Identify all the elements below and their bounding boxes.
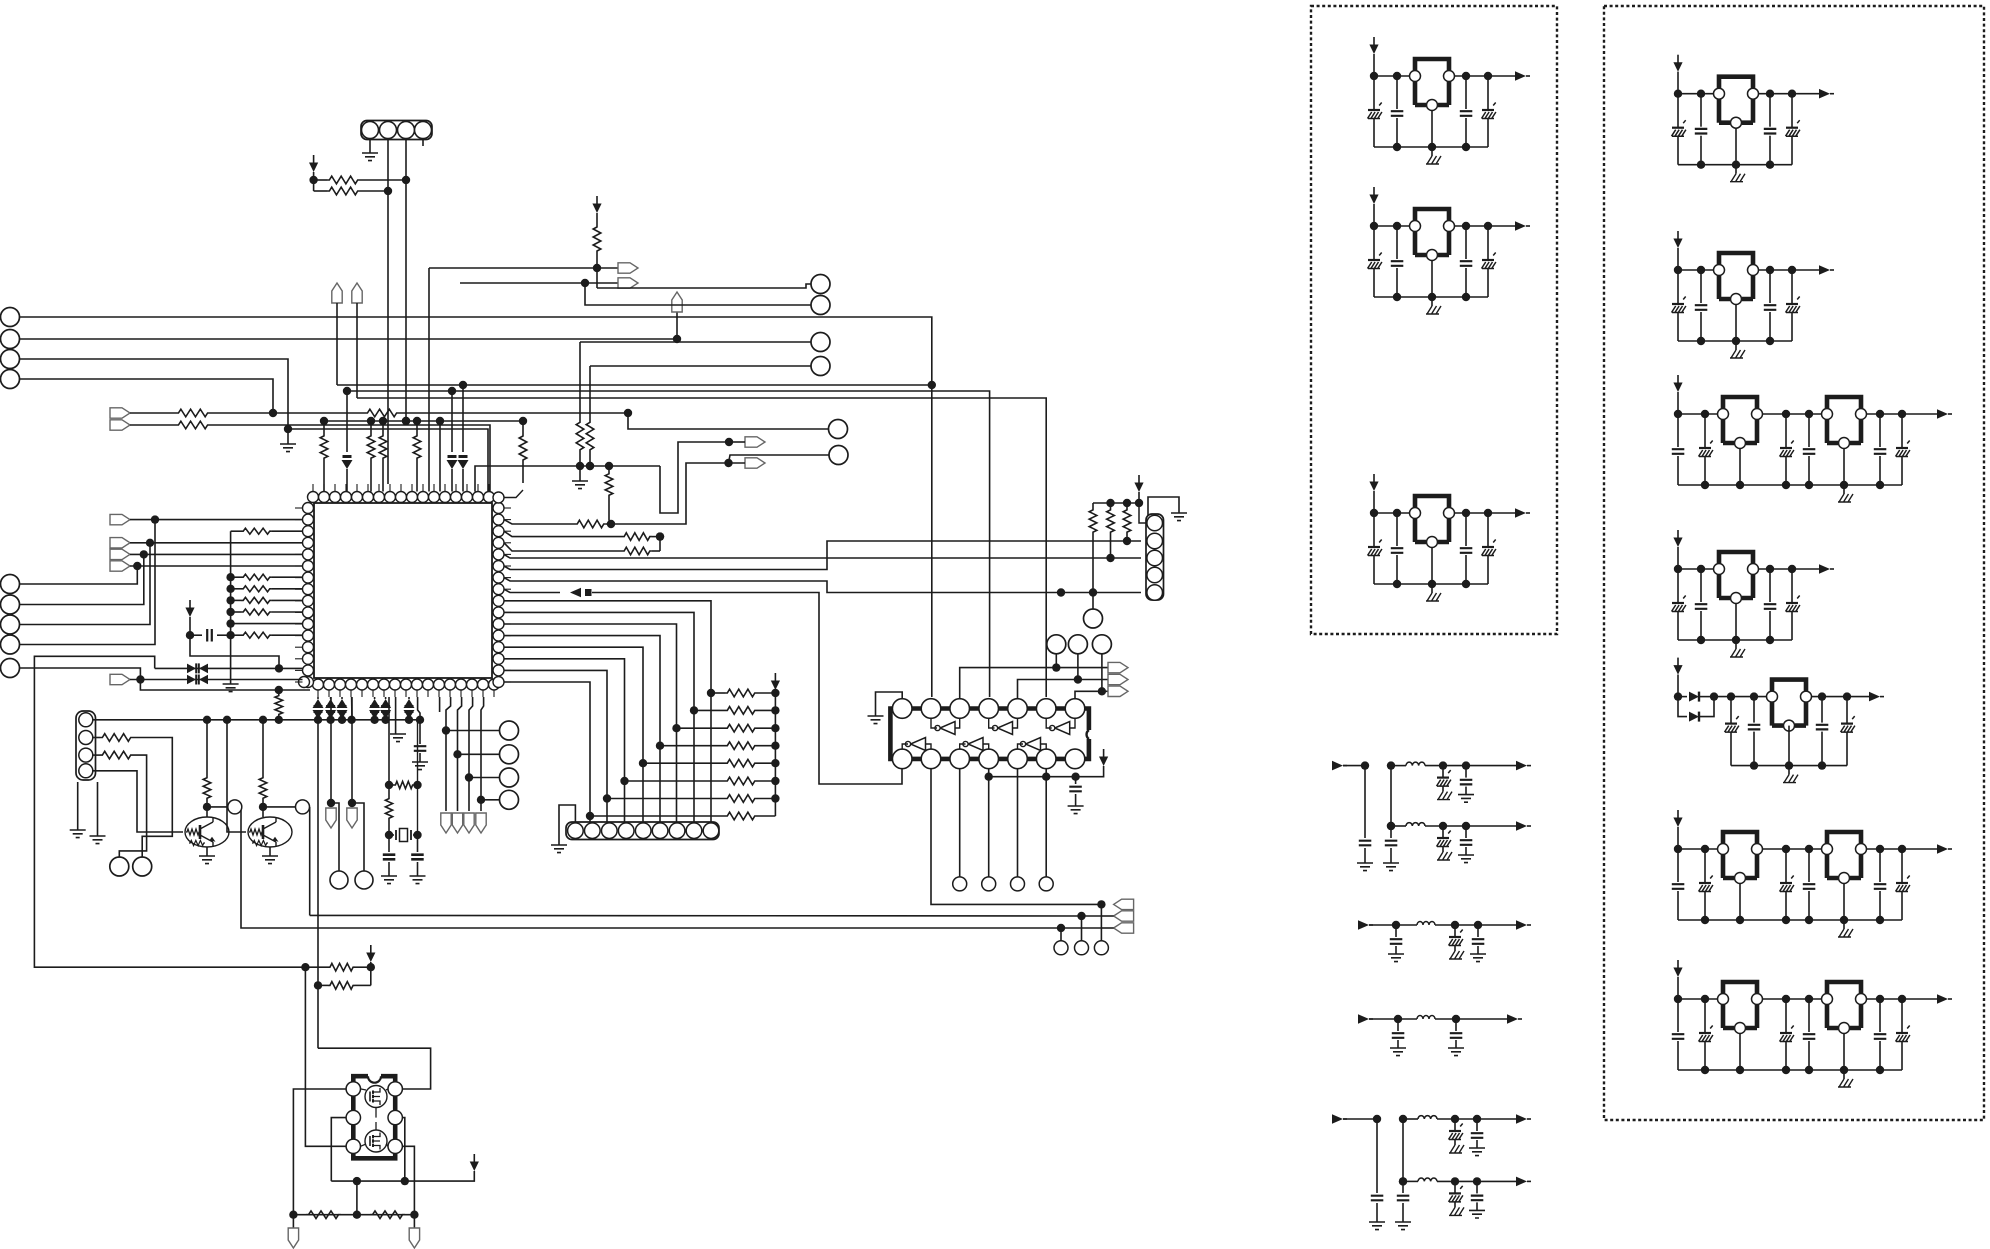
connector CN2 pins — [568, 823, 719, 839]
wire U1 b-pin10 — [418, 697, 420, 720]
wire P2-6 ground rail — [1678, 916, 1902, 924]
wire P2-7 input rail — [1674, 977, 1718, 1003]
wire U1 pin-bus y421 — [320, 417, 523, 425]
arrow P1-1 out — [1515, 71, 1530, 81]
capacitor C5 — [410, 835, 426, 884]
terminal TP23 — [452, 813, 462, 833]
terminal TP26 — [288, 1215, 298, 1248]
arrow P2-6 out — [1937, 844, 1952, 854]
resistor R35 — [275, 690, 283, 720]
ground CN1 pin1 — [362, 139, 378, 161]
connector J1 — [1, 308, 20, 327]
wire FL207a gnd pin — [1739, 1033, 1741, 1070]
connector CN1 outline — [361, 121, 432, 140]
power P2-1 VCC — [1673, 55, 1682, 72]
resistor R4 — [130, 421, 490, 491]
node F5_1377 — [1373, 1115, 1381, 1123]
wire J5 line — [697, 428, 828, 430]
arrow P2-3 out — [1937, 409, 1952, 419]
wire FL201 gnd pin — [1735, 128, 1737, 165]
resistor R33 — [231, 609, 303, 615]
wire FL101 gnd pin — [1431, 110, 1433, 147]
wire to J8 — [576, 342, 811, 470]
connector J22 — [133, 857, 152, 876]
ferrite FB1 — [570, 588, 592, 598]
wire P2-4 output — [1759, 565, 1823, 573]
capacitor CF1_1443 (feedthrough) — [1437, 761, 1453, 799]
wire F5 line — [1403, 1118, 1516, 1120]
wire J3 net — [20, 359, 489, 492]
diode D7 (clamp) — [325, 697, 336, 720]
wire J36 line — [481, 799, 500, 801]
capacitor C203a — [1672, 414, 1685, 485]
arrow P1-3 out — [1515, 508, 1530, 518]
power P2-7 VCC — [1673, 960, 1682, 977]
resistor R23 — [590, 812, 775, 820]
inductor LF3 — [1417, 922, 1435, 925]
capacitor CF2_1443 (feedthrough) — [1437, 822, 1453, 860]
node F6_1403 — [1399, 1177, 1407, 1185]
terminal TP20 — [326, 808, 336, 828]
wire gnd rail y719 — [93, 716, 424, 724]
wire R38/39 join — [370, 962, 372, 985]
resistor R11 — [593, 213, 601, 272]
capacitor CF5b — [1395, 1119, 1411, 1230]
wire U1 b-pin8 gnd — [390, 697, 406, 742]
wire U1 b-nest1 — [442, 697, 451, 811]
ground P2-6 — [1838, 920, 1853, 937]
resistor R25 — [1107, 503, 1115, 558]
wire P1-3 input rail — [1370, 491, 1410, 517]
wire U3 TL — [293, 1089, 346, 1215]
wire CN1 pin2 down — [387, 191, 389, 484]
wire FL203b gnd pin — [1843, 448, 1845, 485]
arrow P2-7 out — [1937, 994, 1952, 1004]
wire U1-pin11 line — [429, 267, 597, 269]
power VCC4 — [1134, 475, 1143, 492]
resistor R16 — [711, 689, 780, 697]
connector CN1 pins — [362, 122, 432, 139]
terminal TP27 — [409, 1215, 419, 1248]
connector J31 — [330, 871, 348, 889]
wire b-term2 branch — [352, 803, 364, 871]
ground U2 pin1 — [868, 692, 903, 724]
wire P2-4 ground rail — [1678, 636, 1792, 644]
wire P2-5 input — [1674, 675, 1687, 701]
wire FL204 gnd pin — [1735, 603, 1737, 640]
filter FL103 (EMI) — [1410, 496, 1455, 548]
capacitor C2 — [412, 720, 428, 770]
wire J33 line — [446, 730, 500, 732]
terminal TP18 — [110, 561, 303, 571]
arrow P2-2 out — [1819, 265, 1834, 275]
filter FL204 (EMI) — [1714, 552, 1759, 604]
wire P2-5 mid — [1714, 692, 1767, 700]
node F1_1391 — [1387, 761, 1395, 769]
wire U1 b-nest4 — [477, 697, 485, 811]
filter FL206b (EMI) — [1822, 832, 1867, 884]
resistor R6 — [320, 421, 328, 492]
wire U2 line928 — [241, 807, 1102, 932]
capacitor C206c (feedthrough) — [1780, 849, 1794, 920]
wire U1 b-pin4 — [351, 697, 353, 720]
capacitor CF5_1477 — [1469, 1115, 1485, 1156]
wire net524 — [611, 459, 733, 524]
capacitor CF3_1478 — [1470, 921, 1486, 962]
wire bus B — [347, 387, 990, 697]
wire J34 line — [458, 753, 501, 755]
capacitor C204a (feedthrough) — [1672, 569, 1686, 640]
ground left rail — [223, 684, 239, 692]
wire J28 route — [20, 543, 151, 625]
wire CN1 pin2 to R net — [384, 139, 392, 196]
ground Q1 — [199, 847, 215, 864]
wire U2 out3 — [959, 769, 961, 877]
resistor R8 — [379, 421, 387, 492]
wire U3 ML — [331, 1118, 346, 1182]
ic U3 pins — [346, 1082, 402, 1154]
terminal TP9 — [1056, 662, 1128, 672]
terminal TP1 — [110, 408, 130, 418]
connector J21 — [1039, 877, 1053, 891]
connector J28 — [1, 615, 20, 634]
resistor R38 — [305, 963, 375, 971]
terminal TP4 — [352, 283, 362, 398]
wire M2 leads — [361, 1122, 389, 1146]
wire Q2 line down — [309, 807, 311, 916]
wire P2-6 output — [1867, 845, 1941, 853]
inductor LF5 — [1418, 1116, 1437, 1119]
diode D10 (clamp) — [380, 697, 391, 720]
wire P1-2 input rail — [1370, 204, 1410, 230]
wire bus C — [357, 398, 1046, 697]
capacitor C103a (feedthrough) — [1368, 513, 1382, 584]
connector J33 — [500, 721, 519, 740]
diode D6 (clamp) — [313, 697, 324, 720]
wire U3 MR — [401, 1118, 409, 1186]
connector J18 — [953, 877, 967, 891]
capacitor C204d (feedthrough) — [1786, 569, 1800, 640]
wire CN3 pin1 gnd — [1148, 497, 1187, 521]
diode D205a — [1689, 692, 1718, 702]
terminal TP12 — [1114, 899, 1134, 909]
wire J1 net — [20, 317, 937, 697]
wire P2-3 ground rail — [1678, 481, 1902, 489]
capacitor C101d (feedthrough) — [1482, 76, 1496, 147]
wire FL205 gnd pin — [1788, 726, 1790, 766]
resistor R29 — [231, 528, 303, 534]
filter FL206a (EMI) — [1718, 832, 1763, 884]
resistor R41 — [370, 1211, 405, 1219]
capacitor C101c — [1460, 76, 1473, 147]
wire CN4-2 route — [93, 734, 173, 858]
power VCC2 — [592, 196, 601, 213]
capacitor C103c — [1460, 513, 1473, 584]
wire line y283 — [460, 279, 589, 287]
wire P2-1 input rail — [1674, 72, 1714, 98]
wire drive down — [305, 967, 346, 1146]
ground P2-3 — [1838, 485, 1853, 502]
capacitor CF3_1455 (feedthrough) — [1449, 921, 1465, 959]
ground P1-2 — [1426, 297, 1441, 314]
ground P2-1 — [1730, 165, 1745, 182]
capacitor C207f (feedthrough) — [1896, 999, 1910, 1070]
arrow F5 in — [1332, 1114, 1377, 1124]
resistor R7 — [367, 421, 375, 492]
connector J30 — [1, 659, 20, 678]
filter FL203b (EMI) — [1822, 397, 1867, 449]
wire left rail — [226, 531, 234, 684]
capacitor C102b — [1391, 226, 1404, 297]
crystal X1 — [389, 829, 418, 842]
node F1_1365 — [1361, 761, 1369, 769]
capacitor C205a (feedthrough) — [1725, 697, 1739, 766]
connector J11 — [1084, 609, 1103, 628]
connector J5 — [829, 420, 848, 439]
wire J2 net — [20, 305, 682, 343]
wire to J9 — [586, 366, 811, 470]
gate U2F — [1018, 738, 1047, 751]
filter FL203a (EMI) — [1718, 397, 1763, 449]
wire TP row to J5 crossover — [628, 413, 697, 429]
wire J26 route — [20, 566, 138, 584]
wire y690 line — [140, 680, 310, 695]
capacitor CF6_1477 — [1469, 1177, 1485, 1218]
power P2-3 VCC — [1673, 375, 1682, 392]
filter FL205 (EMI) — [1767, 680, 1812, 732]
power P1-1 VCC — [1369, 37, 1378, 54]
power P2-6 VCC — [1673, 810, 1682, 827]
wire U1 fan3 — [504, 624, 681, 822]
resistor R22 — [607, 794, 780, 802]
wire P2-2 output — [1759, 266, 1823, 274]
connector J4 — [1, 370, 20, 389]
resistor R37 — [385, 785, 393, 839]
wire P1-1 input rail — [1370, 54, 1410, 80]
arrow F4 in — [1358, 1014, 1398, 1024]
capacitor C203d — [1803, 414, 1816, 485]
wire bus A — [337, 381, 932, 389]
connector J13 — [1068, 635, 1087, 680]
ground P2-7 — [1838, 1070, 1853, 1087]
capacitor CF4_1398 — [1390, 1015, 1406, 1056]
terminal TP17 — [110, 549, 303, 559]
terminal TP15 — [110, 514, 303, 524]
connector J9 — [811, 357, 830, 376]
ic U2 pins — [892, 699, 1084, 769]
wire FL206b gnd pin — [1843, 883, 1845, 920]
wire F6 line — [1403, 1180, 1516, 1182]
ic U1 pins — [299, 492, 505, 691]
capacitor C102c — [1460, 226, 1473, 297]
inductor LF6 — [1418, 1178, 1437, 1181]
resistor R28 — [259, 720, 267, 811]
ground CN4 a — [70, 782, 86, 838]
wire U1 fan5 — [504, 647, 647, 822]
wire P1-2 ground rail — [1374, 293, 1488, 301]
wire P2-6 input rail — [1674, 827, 1718, 853]
connector J8 — [811, 333, 830, 352]
wire P2-7 ground rail — [1678, 1066, 1902, 1074]
frame power-filter panel 2 — [1604, 6, 1984, 1120]
terminal TP7 — [745, 437, 765, 447]
gate U2E — [960, 738, 989, 751]
wire P2-1 output — [1759, 90, 1823, 98]
wire Q2 base up — [227, 720, 246, 832]
filter FL101 (EMI) — [1410, 59, 1455, 111]
wire U2 out5 — [1017, 769, 1019, 877]
ic U2 body — [890, 709, 1089, 759]
wire U2 top3 — [960, 663, 1061, 698]
filter FL202 (EMI) — [1714, 253, 1759, 305]
terminal TP25 — [476, 813, 486, 833]
resistor R34 — [231, 632, 303, 638]
resistor R15 — [504, 543, 660, 555]
capacitor C203f (feedthrough) — [1896, 414, 1910, 485]
terminal TP24 — [464, 813, 474, 833]
resistor R21 — [625, 777, 780, 785]
wire U1 pin12 stub — [436, 417, 444, 492]
wire gate vert — [314, 720, 322, 1048]
wire P2-2 input rail — [1674, 248, 1714, 274]
wire U1 b-pin12 stub — [439, 697, 441, 712]
wire pwr branch — [190, 635, 283, 672]
wire rail drop — [356, 1181, 358, 1215]
resistor R39 — [318, 982, 371, 990]
wire J29 route — [20, 520, 156, 645]
capacitor C201c — [1764, 94, 1777, 165]
wire U2 out4 — [985, 769, 993, 877]
capacitor C206a — [1672, 849, 1685, 920]
resistor R10 — [493, 417, 527, 503]
transistor Q1 — [185, 817, 229, 847]
capacitor C207a — [1672, 999, 1685, 1070]
connector J24 — [228, 800, 242, 814]
node F5_1403 — [1399, 1115, 1407, 1123]
wire xtal right rail — [413, 720, 421, 839]
wire b-term1 branch — [331, 803, 339, 872]
resistor R12 — [504, 520, 615, 529]
wire FL102 gnd pin — [1431, 260, 1433, 297]
capacitor C101a (feedthrough) — [1368, 76, 1382, 147]
wire rail-pin11 — [231, 623, 303, 625]
wire U1 r-pin1 — [475, 438, 733, 513]
transistor U3-M1 — [365, 1086, 387, 1108]
connector CN2 outline — [566, 822, 719, 840]
resistor R32 — [231, 597, 303, 603]
connector J19 — [982, 877, 996, 891]
diode D5 (TVS pair) — [187, 675, 208, 685]
terminal TP5 — [597, 263, 638, 273]
resistor R19 — [660, 742, 780, 750]
diode D205b — [1678, 697, 1714, 722]
wire U1 fan4 — [504, 636, 664, 822]
ground J3 branch — [280, 429, 296, 452]
diode D1 (clamp) — [342, 387, 353, 492]
ground P2-4 — [1730, 640, 1745, 657]
connector J29 — [1, 635, 20, 654]
wire VCC1 node — [309, 172, 317, 191]
connector J2 — [1, 330, 20, 349]
capacitor C207e — [1874, 999, 1887, 1070]
wire U1 fan1 — [504, 601, 715, 822]
node F2_1391 — [1387, 822, 1395, 830]
wire U1 r-line4 — [504, 589, 902, 784]
ground P1-3 — [1426, 584, 1441, 601]
resistor R31 — [231, 586, 303, 592]
wire J35 line — [469, 777, 500, 779]
wire CN3 pin5 branch — [1092, 593, 1094, 610]
power VCC8 — [470, 1154, 479, 1171]
wire line y967 — [34, 656, 309, 971]
connector J25 — [296, 800, 310, 814]
ground P2-5 — [1783, 766, 1798, 783]
capacitor CF5a — [1369, 1119, 1385, 1230]
wire TP7 link — [729, 441, 745, 443]
inductor LF1 — [1406, 762, 1425, 765]
diode D2 (clamp) — [447, 391, 458, 492]
wire R-ladder rail — [774, 690, 776, 816]
wire P2-3 output — [1867, 410, 1941, 418]
wire CN1 pin3 to R net — [402, 139, 410, 185]
ground CN2 pin1 — [551, 805, 575, 853]
connector CN4 outline — [76, 711, 96, 780]
connector CN3 outline — [1146, 514, 1164, 600]
wire U1 r-line1 — [504, 554, 1141, 562]
terminal TP21 — [347, 808, 357, 828]
wire P2-5 ground rail — [1731, 761, 1847, 769]
inductor LF2 — [1406, 823, 1425, 826]
power VCC5 — [1099, 749, 1108, 766]
connector J15 — [1054, 928, 1068, 955]
wire CN4-4 route — [93, 771, 183, 832]
power VCC3 — [771, 673, 780, 690]
wire CN4-3 route — [93, 751, 147, 858]
wire Q1 collector — [207, 807, 228, 817]
wire CN1 pin3 down — [402, 180, 410, 425]
capacitor CF1a — [1357, 766, 1373, 871]
connector J26 — [1, 575, 20, 594]
wire to J6 — [597, 268, 811, 288]
resistor R1 — [314, 176, 406, 184]
capacitor C102a (feedthrough) — [1368, 226, 1382, 297]
connector J35 — [500, 768, 519, 787]
ic U1 pin leads — [295, 484, 511, 697]
gate U2D — [902, 738, 931, 751]
arrow F6 out — [1516, 1177, 1531, 1187]
ground CN4 b — [90, 782, 106, 844]
wire U2 out6 — [1042, 769, 1050, 877]
diode D9 (clamp) — [369, 697, 380, 720]
wire U2 top7 — [1075, 687, 1106, 699]
resistor R30 — [231, 574, 303, 580]
filter FL201 (EMI) — [1714, 77, 1759, 129]
connector J17 — [1094, 904, 1108, 954]
capacitor C202b — [1695, 270, 1708, 341]
wire P2-7 output — [1867, 995, 1941, 1003]
arrow F1 out — [1516, 761, 1531, 771]
wire F3 line — [1396, 924, 1516, 926]
capacitor C201a (feedthrough) — [1672, 94, 1686, 165]
capacitor C206d — [1803, 849, 1816, 920]
wire F2 line — [1391, 825, 1516, 827]
diode D4 (TVS pair) — [155, 663, 303, 673]
frame power-filter panel 1 — [1311, 6, 1557, 634]
wire xtal left — [385, 697, 393, 789]
wire CN1 pin4 stub — [422, 139, 424, 147]
terminal TP6 — [585, 278, 638, 288]
gate U2A — [931, 718, 960, 735]
